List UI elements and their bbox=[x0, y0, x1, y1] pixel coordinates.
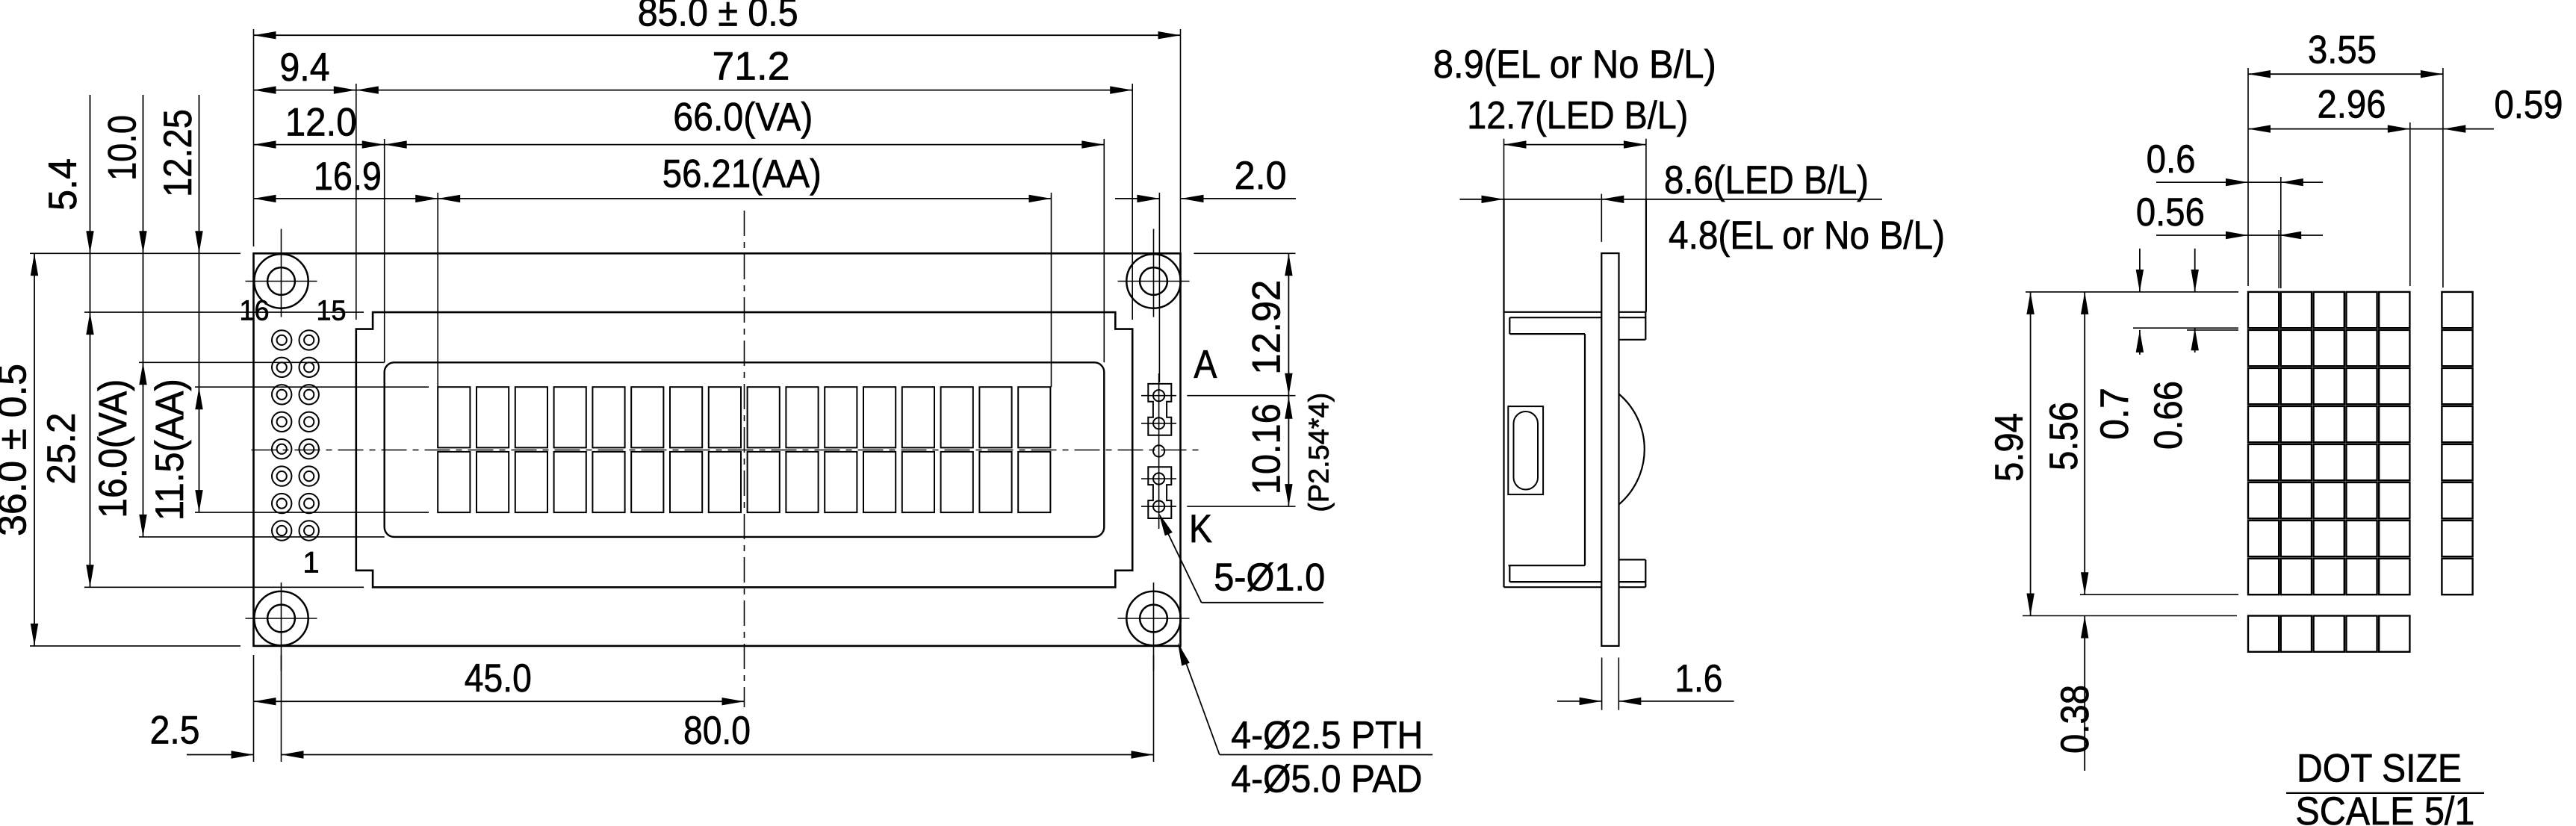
dimension 8.6 / 4.8 mounting surface line bbox=[1460, 199, 1883, 200]
extension line dot row1 bottom (0.66) bbox=[2133, 327, 2238, 329]
dimension 45.0 edge to display center bbox=[254, 701, 745, 702]
svg-text:56.21(AA): 56.21(AA) bbox=[662, 152, 822, 196]
arrow 10.0 to PCB top bbox=[139, 231, 146, 253]
svg-text:K: K bbox=[1189, 507, 1212, 551]
extension line backlight pad column bbox=[1158, 193, 1160, 382]
svg-text:85.0 ± 0.5: 85.0 ± 0.5 bbox=[638, 0, 798, 35]
extension tick PCB front face bbox=[1601, 194, 1602, 242]
svg-text:36.0 ± 0.5: 36.0 ± 0.5 bbox=[0, 364, 35, 536]
svg-text:12.0: 12.0 bbox=[285, 101, 357, 145]
metal bezel frame outline (71.2 x 25.2) with corner notches bbox=[356, 312, 1132, 587]
dimension line 12.92 / 10.16 bbox=[1288, 253, 1289, 506]
dimension 5.94 char row pitch bbox=[2030, 292, 2032, 616]
arrow at bezel bottom bbox=[86, 565, 93, 587]
leader note 5-dia1.0 backlight holes bbox=[1159, 513, 1326, 603]
svg-text:8.9(EL or No B/L): 8.9(EL or No B/L) bbox=[1433, 43, 1716, 87]
svg-text:0.56: 0.56 bbox=[2136, 190, 2205, 235]
arrow at AA top bbox=[195, 387, 202, 409]
dimension 2.0 pad to PCB edge bbox=[1115, 198, 1159, 199]
character blocks 16 columns x 2 rows (AA 56.21 x 11.5) bbox=[438, 387, 1050, 512]
dimension 0.38 row gap bbox=[2084, 616, 2085, 771]
extension line bezel top (left) bbox=[84, 311, 364, 313]
extension line next char left (3.55) bbox=[2442, 68, 2444, 288]
extension line bezel left bbox=[356, 84, 357, 320]
backlight cathode pad K bbox=[1148, 467, 1171, 518]
extension line VA left bbox=[384, 139, 385, 362]
extension line next row top (5.94/0.38) bbox=[2023, 615, 2237, 617]
svg-text:5.56: 5.56 bbox=[2042, 402, 2086, 471]
svg-text:25.2: 25.2 bbox=[40, 413, 84, 485]
svg-text:12.7(LED B/L): 12.7(LED B/L) bbox=[1467, 94, 1688, 137]
dimension 1.6 PCB thickness bbox=[1557, 701, 1602, 702]
title underline bbox=[2286, 792, 2484, 794]
extension line dot grid left bbox=[2247, 68, 2249, 286]
dimension 12.0 VA offset bbox=[254, 144, 385, 146]
extension line PCB top edge (left dims) bbox=[30, 252, 240, 254]
vertical centerline of display bbox=[744, 211, 745, 707]
extension line PCB left edge (top dims) bbox=[253, 29, 255, 246]
extension line dot row2 top (0.7) bbox=[2187, 329, 2238, 331]
svg-text:80.0: 80.0 bbox=[683, 709, 751, 753]
dimension 16.9 AA offset bbox=[254, 198, 438, 199]
dimension 0.7 dot y pitch upper arrow line bbox=[2139, 249, 2141, 292]
svg-text:4.8(EL or No B/L): 4.8(EL or No B/L) bbox=[1669, 214, 1945, 258]
svg-text:0.59: 0.59 bbox=[2495, 83, 2563, 127]
dimension 71.2 bezel width bbox=[356, 90, 1132, 91]
extension line 2nd dot column left (0.6) bbox=[2280, 177, 2282, 288]
svg-text:4-Ø2.5 PTH: 4-Ø2.5 PTH bbox=[1231, 714, 1423, 757]
svg-text:12.92: 12.92 bbox=[1244, 280, 1288, 375]
svg-text:16.9: 16.9 bbox=[314, 155, 382, 199]
arrow at VA top bbox=[139, 362, 146, 385]
extension line AA bottom (left) bbox=[195, 512, 429, 513]
svg-text:0.6: 0.6 bbox=[2147, 137, 2196, 181]
EL lamp connector capsule bbox=[1508, 406, 1543, 494]
svg-text:1.6: 1.6 bbox=[1675, 657, 1722, 701]
dimension 0.6 dot x pitch bbox=[2156, 181, 2323, 183]
svg-text:3.55: 3.55 bbox=[2308, 28, 2377, 72]
dimension 56.21(AA) active area width bbox=[438, 198, 1051, 199]
svg-text:2.96: 2.96 bbox=[2318, 83, 2386, 127]
extension line hole center (bottom dims) bbox=[281, 655, 282, 762]
extension line row8 bottom (5.56) bbox=[2080, 594, 2238, 595]
dot matrix 5x8 grid (DOT SIZE detail) bbox=[2248, 292, 2473, 652]
svg-text:(P2.54*4): (P2.54*4) bbox=[1304, 393, 1335, 512]
extension line VA bottom (left) bbox=[139, 536, 385, 538]
dimension 80.0 hole spacing bbox=[282, 754, 1154, 756]
display viewing-area window 66.0x16.0 (VA) bbox=[385, 362, 1105, 537]
dimension 2.5 edge to hole center bbox=[187, 754, 254, 756]
extension line dot row1 top bbox=[2026, 291, 2238, 293]
dimension 12.7(LED B/L) total thickness bbox=[1504, 144, 1646, 146]
extension line AA right bbox=[1051, 193, 1052, 387]
svg-text:SCALE 5/1: SCALE 5/1 bbox=[2295, 789, 2474, 826]
svg-text:8.6(LED B/L): 8.6(LED B/L) bbox=[1664, 158, 1869, 202]
dimension 9.4 bezel offset bbox=[254, 90, 356, 91]
extension line PCB right edge lower part bbox=[1180, 246, 1182, 253]
svg-text:A: A bbox=[1194, 343, 1217, 387]
dimension line 10.0 / 16.0(VA) bbox=[143, 95, 144, 537]
svg-text:9.4: 9.4 bbox=[280, 46, 330, 90]
svg-text:71.2: 71.2 bbox=[713, 45, 790, 89]
arrow 12.25 to PCB top bbox=[195, 231, 202, 253]
mounting hole bottom-right (PTH 2.5 / PAD 5.0) with crosshair bbox=[1118, 583, 1190, 671]
side view PCB (1.6 thick) bbox=[1601, 253, 1618, 646]
side view module outline bbox=[1504, 199, 1646, 587]
svg-text:2.0: 2.0 bbox=[1235, 154, 1287, 198]
extension line VA top (left) bbox=[139, 361, 385, 363]
extension line PCB left (bottom dims) bbox=[253, 655, 255, 762]
extension line PCB back (1.6 dim) bbox=[1618, 658, 1619, 710]
svg-text:12.25: 12.25 bbox=[156, 109, 200, 197]
horizontal centerline bbox=[252, 450, 1205, 451]
LCD module PCB outline (85.0 x 36.0) bbox=[254, 253, 1181, 646]
mounting hole top-left (PTH 2.5 / PAD 5.0) with crosshair bbox=[246, 229, 317, 317]
svg-text:16: 16 bbox=[240, 296, 270, 327]
connector pin holes 16..1 (2 x 8) bbox=[272, 330, 319, 541]
dimension 0.56 dot width bbox=[2156, 235, 2323, 236]
dimension 85.0 +/- 0.5 overall width bbox=[254, 34, 1181, 36]
extension line AA left bbox=[437, 193, 438, 387]
extension line 1st dot right edge (0.56) bbox=[2278, 230, 2279, 288]
extension line PCB bottom edge (left dims) bbox=[30, 645, 240, 647]
dimension 36.0 +/- 0.5 overall height bbox=[34, 253, 35, 646]
dimension 0.66 dot height upper arrow line bbox=[2194, 249, 2196, 292]
svg-text:0.38: 0.38 bbox=[2053, 685, 2097, 754]
svg-text:10.16: 10.16 bbox=[1244, 403, 1288, 494]
svg-text:45.0: 45.0 bbox=[465, 656, 532, 701]
svg-text:5.4: 5.4 bbox=[41, 158, 85, 211]
extension line bezel bottom (left) bbox=[84, 586, 364, 588]
svg-text:10.0: 10.0 bbox=[101, 115, 145, 181]
dimension 5.56 char height bbox=[2084, 292, 2085, 594]
backlight lens bump arc bbox=[1619, 394, 1645, 505]
dimension line 12.25 / 11.5(AA) bbox=[199, 95, 200, 512]
arrow 5.4 to PCB top bbox=[86, 231, 93, 253]
svg-text:11.5(AA): 11.5(AA) bbox=[148, 379, 192, 521]
svg-text:0.66: 0.66 bbox=[2147, 381, 2191, 450]
extension line module front face bbox=[1503, 139, 1505, 199]
leader note 4-dia2.5 PTH / 4-dia5.0 PAD mounting holes bbox=[1178, 643, 1433, 801]
extension line bezel right bbox=[1132, 84, 1133, 320]
arrow at bezel top bbox=[86, 312, 93, 335]
svg-text:5-Ø1.0: 5-Ø1.0 bbox=[1214, 556, 1325, 600]
extension line right hole center (bottom dims) bbox=[1153, 655, 1155, 762]
dimension 2.96 char width / 0.59 gap bbox=[2248, 128, 2494, 130]
extension line PCB front (1.6 dim) bbox=[1601, 658, 1603, 710]
backlight pin holes 5-dia1.0 bbox=[1153, 390, 1164, 512]
extension line pad A bbox=[1187, 395, 1295, 397]
backlight pad hole crosshairs bbox=[1141, 373, 1176, 529]
mounting hole bottom-left (PTH 2.5 / PAD 5.0) with crosshair bbox=[246, 583, 317, 671]
dimension 3.55 character pitch bbox=[2248, 73, 2443, 75]
extension line PCB top to right dims bbox=[1194, 252, 1295, 254]
backlight anode pad A bbox=[1148, 384, 1171, 435]
extension line pad K bbox=[1187, 506, 1295, 507]
arrow at AA bottom bbox=[195, 490, 202, 512]
svg-text:15: 15 bbox=[317, 296, 347, 327]
extension line AA top (left) bbox=[195, 386, 429, 388]
svg-text:0.7: 0.7 bbox=[2093, 388, 2137, 440]
svg-text:5.94: 5.94 bbox=[1987, 413, 2032, 482]
dimension 66.0(VA) viewing area width bbox=[385, 144, 1105, 146]
extension line char right edge (2.96) bbox=[2409, 122, 2411, 286]
svg-text:DOT SIZE: DOT SIZE bbox=[2297, 747, 2462, 791]
svg-text:2.5: 2.5 bbox=[150, 709, 200, 753]
svg-text:4-Ø5.0 PAD: 4-Ø5.0 PAD bbox=[1231, 758, 1422, 801]
extension line module back apex bbox=[1645, 139, 1647, 199]
dimension line 5.4 / 25.2 bbox=[90, 95, 91, 587]
svg-text:16.0(VA): 16.0(VA) bbox=[91, 379, 135, 518]
svg-text:66.0(VA): 66.0(VA) bbox=[673, 96, 813, 140]
arrow at VA bottom bbox=[139, 515, 146, 537]
mounting hole top-right (PTH 2.5 / PAD 5.0) with crosshair bbox=[1118, 229, 1190, 317]
svg-text:1: 1 bbox=[302, 547, 319, 580]
extension line PCB right edge (top dims) bbox=[1180, 29, 1182, 246]
extension line VA right bbox=[1103, 139, 1105, 362]
